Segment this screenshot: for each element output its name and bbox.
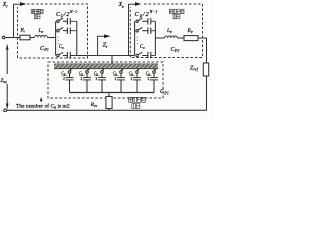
shunt branch CB5 [133,68,141,92]
ellipsis bank2 [58,37,59,45]
label CB/2 fraction 3 [94,72,100,82]
wire Ri to L0 [30,37,35,39]
svg-text:2: 2 [96,77,98,81]
wire Zinj shaft upper [6,50,8,75]
svg-text:CF/2N-1: CF/2N-1 [56,10,78,18]
wire mid (bank2 out to bank1 in) [70,55,134,57]
wire L0 to rail [47,37,55,39]
wire Zinj shaft lower [6,84,8,104]
impedance Zref box [203,63,208,76]
arrowhead Zinj down [6,104,9,110]
wire LP to RP [177,37,184,39]
svg-text:Zt: Zt [103,42,109,49]
svg-text:2: 2 [81,77,83,81]
ellipsis bank1 [137,37,138,45]
resistor Ri [20,35,30,40]
label CB/2 fraction 5 [129,72,135,82]
svg-text:2: 2 [63,77,65,81]
svg-text:CP1: CP1 [160,89,169,95]
svg-text:RP: RP [187,28,193,34]
dashed box: capacitor array 2 [18,4,88,58]
dashed box: capacitor array 1 [130,4,202,58]
terminal: input port top [2,36,5,39]
capacitor bank1 row1 [148,18,156,24]
capacitor second row [67,28,76,34]
inductor L0 [35,35,48,37]
terminal: input port bottom [4,109,7,112]
arrowhead Xp [135,2,142,6]
node right rail bank2 [76,21,78,55]
wire junction down to shunt bank [111,56,113,65]
svg-text:2: 2 [148,77,150,81]
arrowhead Xf [20,2,27,6]
wire RP to right corner [198,38,207,110]
capacitor C0 right [148,52,156,58]
svg-text:CB/2N-1: CB/2N-1 [135,10,159,18]
wire bottom rail [7,109,207,111]
svg-text:C0: C0 [59,45,64,50]
capacitor C0 left [67,52,70,58]
resistor RP [184,36,198,41]
wire rail to LP [155,37,164,39]
switch S1 bank2 [57,18,68,22]
svg-text:Zinj: Zinj [0,78,6,84]
switch S2 bank1 [136,28,148,32]
shunt branch CB4 [117,68,125,92]
switch S2 bank2 [57,28,68,32]
svg-text:Xf: Xf [2,2,9,8]
svg-text:L0: L0 [38,28,44,34]
svg-text:CP2: CP2 [171,47,180,53]
node shunt bottom rail [70,92,155,94]
wire Xf annotation [14,4,21,37]
shunt branch CB6 [150,68,158,92]
wire rail to RP1 [108,93,110,97]
node left rail bank1 [134,21,136,55]
switch S0 bank1 [136,52,148,56]
svg-text:Ri: Ri [20,27,25,33]
arrowhead Zt [104,34,111,38]
svg-text:2: 2 [115,77,117,81]
node left bank rail [55,21,57,55]
wire RP1 to bottom [108,109,110,111]
switch S0 bank2 [57,52,68,56]
arrowhead Zinj up [6,44,9,50]
node right rail bank1 [154,21,156,55]
svg-text:2: 2 [131,77,133,81]
svg-text:Xp: Xp [118,2,125,8]
svg-text:CP1: CP1 [40,46,49,52]
label CB/2 fraction 6 [146,72,152,82]
label 第2电容 阵列 (array 2 caption) [31,9,43,18]
wire port to Ri [5,37,20,39]
switch S1 bank1 [136,18,148,22]
resistor RP1 [106,97,112,109]
shield bar hatched [54,64,158,69]
svg-text:RP1: RP1 [90,102,98,108]
arrowhead note leader [40,97,43,102]
capacitor CF/2^(N-1) top [67,18,76,24]
svg-text:The number of CB is m2: The number of CB is m2 [16,103,70,110]
svg-text:Zref: Zref [190,65,199,71]
shunt branch CB2 [83,68,91,92]
label 第1电阻 阵列 (resistor array caption) [129,97,146,108]
shunt branch CB1 [66,68,74,92]
svg-text:LP: LP [166,28,172,34]
label CB/2 fraction 1 [61,72,67,82]
inductor LP [165,36,178,38]
svg-text:C0: C0 [140,45,145,50]
capacitor bank1 row2 [148,28,156,34]
shunt branch CB3 [98,68,106,92]
label CB/2 fraction 2 [79,72,85,82]
wire Xp annotation [129,4,136,55]
label 第1电容 阵列 (array 1 caption) [169,9,184,19]
label CB/2 fraction 4 [113,72,119,82]
dashed box: shunt CB bank [48,62,163,98]
wire Zt annotation [98,36,105,55]
